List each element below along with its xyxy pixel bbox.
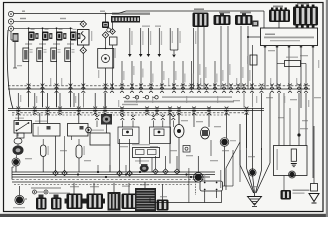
connector pair bus1-15 [190, 84, 194, 86]
label ECU text [265, 34, 275, 36]
pin tick 1 [264, 46, 266, 48]
camshaft sensor [101, 114, 112, 125]
wire ECU pin 5 [312, 46, 314, 179]
label Kdrop 2 [205, 67, 206, 78]
connector pair bus2-13 [192, 107, 196, 109]
wire interbus 8 [252, 93, 254, 108]
ECU lower box [274, 146, 308, 176]
wire injector 3 down [56, 62, 58, 108]
label ref 1 [131, 31, 132, 45]
ground bar fuse [291, 163, 297, 165]
ground main open [248, 197, 262, 206]
wire coil 3 drop [56, 28, 58, 32]
connector pair bus1-2 [41, 84, 45, 86]
wire bus2b stub 3 [132, 114, 134, 116]
wire igniter loop [204, 191, 206, 203]
label M-F [20, 18, 26, 19]
wire coil2 down [162, 184, 164, 199]
ECU terminal circles [126, 96, 129, 99]
fuse symbol [102, 55, 110, 63]
label bar col [115, 48, 116, 58]
label vspeck 7 [118, 100, 119, 107]
circuit opening relay [14, 121, 32, 134]
label diag text [31, 187, 61, 188]
connector pair bus1-9 [130, 84, 134, 86]
connector pair bus2-9 [145, 107, 149, 109]
wire bus2 drop 3 [47, 93, 49, 107]
label speck 21 [233, 100, 240, 101]
connector pair bus1-24 [260, 84, 264, 86]
label speck 27 [222, 150, 229, 151]
water temp sensor [16, 196, 23, 203]
label circles row [162, 96, 232, 98]
wire bar col down [112, 45, 114, 89]
box main relay 2 [133, 148, 160, 158]
injector solenoid [221, 139, 228, 146]
label vertical right [220, 170, 221, 188]
ground main hatch [250, 199, 260, 204]
label box mr2 [132, 144, 150, 145]
junction coil 1 [28, 27, 30, 29]
connector diamond bus3-d [62, 170, 67, 175]
connector pair bus2-16 [245, 107, 249, 109]
wire mid col 162 [161, 61, 163, 89]
label conn K5 [297, 3, 309, 5]
wire bus2b stub 5 [162, 114, 164, 116]
wire resistor jumper [277, 63, 285, 65]
wire left curve [7, 30, 13, 109]
connector ECU small [252, 21, 259, 27]
label R3 [58, 49, 61, 50]
wire relay to diamond [82, 45, 84, 47]
connector bar J1 [111, 16, 140, 23]
label speck 11 [140, 184, 149, 185]
connector pair bus1-23 [250, 84, 254, 86]
connector pair bus1-10 [139, 84, 143, 86]
connector pair bus2-15 [225, 107, 229, 109]
label wts [13, 207, 25, 208]
label ref pair [172, 31, 173, 43]
funnel arm 3 [252, 108, 254, 175]
funnel arm 4 [261, 148, 263, 170]
connector K2 [214, 15, 231, 25]
wire coil 4 drop [70, 28, 72, 32]
connector diamond bar [110, 29, 116, 35]
connector pair bus1-17 [205, 84, 209, 86]
connector B4 [122, 194, 138, 210]
connector pair bus1-28 [297, 84, 301, 86]
sensor circle funnel [250, 170, 256, 176]
junction bus3-3 [105, 176, 107, 178]
wire igniter 3 [56, 41, 58, 49]
wire fusebox down [105, 68, 107, 89]
wire mid drop 6 [104, 113, 106, 114]
bus line 3b [12, 174, 215, 176]
wire ref 4 [158, 28, 160, 56]
wire injector 2 down [42, 62, 44, 108]
wire ref 1 [129, 28, 131, 56]
connector pair bus2-5 [77, 107, 81, 109]
connector K1 [193, 13, 209, 28]
wire col 290 seg [289, 108, 291, 146]
label speck 18 [181, 120, 188, 121]
label T-5 [17, 65, 22, 66]
bus3 left bend [11, 167, 13, 180]
label vspeck 8 [136, 96, 137, 103]
wire mid drop 2 [39, 113, 41, 124]
wire Kdrop 6 [247, 26, 249, 89]
label speck 30 [300, 128, 308, 129]
dashed box VSV1 [118, 127, 139, 144]
pin tick 3 [288, 46, 290, 48]
wire bus3 drop 2 [109, 165, 111, 172]
label R2 [44, 49, 47, 50]
wire injector 1 down [28, 62, 30, 108]
label conn K1 [194, 8, 204, 10]
wire bus2b stub 1 [96, 114, 98, 116]
connector pair bus2-11 [168, 107, 172, 109]
junction bus3-4 [125, 173, 127, 175]
wire igniter 4 [70, 41, 72, 49]
wire bus2 drop 7 [104, 93, 106, 107]
EFI main relay [78, 30, 90, 46]
component small mid [183, 146, 190, 153]
arrow ref 2 [139, 54, 143, 57]
label Kdrop 3 [222, 70, 223, 81]
pin tick 4 [300, 46, 302, 48]
wire mid drop 4 [78, 113, 80, 124]
connector pair bus2-4 [58, 107, 62, 109]
connector pair bus1-1 [27, 84, 31, 86]
box throttle sensor [68, 124, 89, 137]
label resistor [286, 57, 298, 58]
label vspeck 1 [20, 95, 21, 102]
connector pair bus2b-6 [171, 115, 175, 117]
wire igniter stub [195, 181, 197, 195]
wire right edge2 [264, 13, 322, 15]
connector pair bus1-25 [270, 84, 274, 86]
wire mid drop 8 [178, 113, 180, 125]
connector K5 [293, 7, 318, 26]
wire ign drop [105, 14, 107, 22]
connector K3 [235, 15, 253, 25]
junction bus3-1 [77, 173, 79, 175]
wire long mid 2 [178, 113, 180, 125]
resistor R-EGR [285, 61, 301, 67]
label coil top 4 [73, 29, 77, 30]
wire interbus 3 [56, 93, 58, 108]
label conn K2 [219, 12, 230, 14]
wire bus2b stub 4 [153, 114, 155, 116]
knock sensor 1 [174, 125, 184, 138]
ignition coil T1 [28, 32, 34, 41]
connector pair bus2-2 [33, 107, 37, 109]
wire ECU pin 1 [264, 46, 266, 90]
wire bus2 drop 2 [34, 93, 36, 107]
connector pair bus2b-2 [121, 115, 125, 117]
ignition coil assy [135, 188, 156, 211]
wire long right 4 [305, 93, 307, 146]
fuel pump [13, 145, 24, 155]
connector pair bus2b-4 [152, 115, 156, 117]
bus line 1 [8, 88, 310, 90]
bus line 1b [8, 85, 310, 87]
connector diamond D1 [80, 21, 86, 27]
wire col 74 seg [73, 93, 75, 107]
bus line 3a [12, 171, 215, 173]
label vspeck 17 [284, 96, 285, 103]
junction coil 2 [42, 27, 44, 29]
label mid col 132 [133, 66, 134, 75]
label speck 25 [186, 155, 193, 156]
connector pair bus1-22 [242, 84, 246, 86]
label vspeck 5 [75, 96, 76, 103]
connector pair bus1-7 [110, 84, 114, 86]
dashed box VSV2 [150, 127, 171, 144]
connector pair bus1-6 [104, 84, 108, 86]
label coil top 1 [31, 29, 35, 30]
bus line 3c [12, 176, 210, 178]
label speck 23 [150, 146, 158, 147]
wire dlc down [109, 145, 111, 172]
wire Kdrop 5 [240, 26, 242, 89]
node IG terminal [8, 19, 13, 24]
wire bus2 drop 1 [17, 93, 19, 107]
wire igniter 1 [28, 41, 30, 49]
wire interbus 7 [243, 93, 245, 108]
box dlc [90, 133, 110, 145]
label mid col 141 [142, 69, 143, 78]
wire ref 2 [140, 28, 142, 56]
wire Kdrop 2 [203, 26, 205, 89]
wire Kdrop 4 [227, 26, 229, 89]
connector pair bus1-14 [181, 84, 185, 86]
wire right loop [223, 185, 234, 187]
pump sensor dot [13, 159, 19, 165]
ignition coil T2 [42, 32, 49, 41]
wire noise filter down [14, 42, 16, 68]
label Kdrop 5 [242, 67, 243, 78]
wire dist up [197, 156, 199, 173]
wire capsule1 [42, 157, 44, 173]
label conn K4 [273, 6, 283, 8]
connector diamond D3 [102, 32, 108, 38]
connector pair bus2-14 [207, 107, 211, 109]
bus line 3d [12, 179, 205, 181]
label speck 5 [314, 97, 321, 98]
label R1 [30, 49, 33, 50]
wire capsule2 [78, 158, 80, 172]
junction circle [107, 28, 111, 32]
connector diamond bus3-3 [174, 169, 179, 174]
wire coil 1 drop [28, 28, 30, 32]
label coil top 2 [45, 29, 49, 30]
connector pair bus2-3 [46, 107, 50, 109]
label check conn [247, 56, 248, 64]
wire long right 1 [261, 93, 263, 150]
label Kdrop 6 [249, 70, 250, 81]
wire bus2 drop 4 [59, 93, 61, 107]
label vspeck 20 [318, 60, 319, 68]
label a [22, 11, 25, 12]
wire ECU left stub [248, 36, 261, 38]
funnel arm 1 [239, 124, 241, 165]
wire bus3 drop 3 [125, 165, 127, 172]
junction bus3-2 [97, 171, 99, 173]
label box2 [35, 121, 47, 122]
connector diamond D2 [80, 47, 86, 53]
junction coil 3 [56, 27, 58, 29]
label ref 2 [142, 31, 143, 45]
bus line 2d [12, 114, 230, 116]
wire second feed [14, 20, 84, 22]
connector pair bus2-8 [120, 107, 124, 109]
wire interbus 4 [70, 93, 72, 108]
wire ref 3 [147, 28, 149, 56]
label vspeck 3 [50, 78, 51, 86]
label ref 3 [150, 31, 151, 45]
connector blob ign [102, 22, 109, 29]
diag connector right [281, 190, 292, 200]
wire long mid 1 [169, 113, 171, 164]
wire bus2b stub 2 [121, 114, 123, 116]
connector pair bus2-6 [93, 107, 97, 109]
connector B1 [67, 194, 83, 210]
label speck 19 [196, 121, 203, 122]
funnel arm 2 [246, 150, 248, 168]
label speck 15 [84, 160, 91, 161]
wire injector 4 down [70, 62, 72, 108]
wire mid drop 11 [226, 113, 228, 138]
label speck 13 [25, 158, 32, 159]
arrow ref 1 [128, 54, 132, 57]
connector small S2 [51, 198, 62, 210]
label speck 2 [278, 117, 284, 118]
label speck 14 [60, 150, 67, 151]
wire ECU pin 4 [300, 46, 302, 109]
injector resistor R4 [65, 48, 71, 62]
wire mid drop 1 [17, 113, 19, 121]
label speck 17 [155, 26, 161, 27]
label vspeck 19 [308, 100, 309, 107]
label speck 1 [266, 97, 273, 98]
label mid col 183 [184, 74, 185, 83]
connector pair bus2-10 [155, 107, 159, 109]
wire to fusebox [105, 38, 107, 48]
wire mid col 132 [131, 61, 133, 89]
wire relay down [82, 54, 84, 90]
wire mid col 122 [121, 61, 123, 89]
label vspeck 14 [236, 78, 237, 86]
label speck 4 [302, 120, 308, 121]
label vspeck 4 [61, 78, 62, 86]
label mid col 215 [216, 74, 217, 83]
wire K5 to ECU [302, 26, 304, 28]
label ECU bar [112, 13, 150, 15]
label rel1 [15, 118, 24, 119]
wire ref pair [169, 28, 171, 50]
junction bus3-5 [139, 171, 141, 173]
fuse bottom right [311, 184, 318, 192]
wire ECU pin 2 [276, 46, 278, 90]
junction coil 4 [70, 27, 72, 29]
label speck 3 [290, 99, 297, 100]
label vspeck 16 [270, 78, 271, 86]
wire mid drop 5 [94, 113, 96, 114]
connector pair bus2-1 [16, 107, 20, 109]
wire bus3 drop 1 [97, 165, 99, 172]
junction bus3-6 [185, 173, 187, 175]
label ECU mid text [124, 101, 234, 103]
speed sensor [86, 127, 92, 133]
wire top feed [14, 13, 118, 15]
node B+ terminal [8, 11, 13, 16]
wire left drop [10, 31, 12, 40]
wire interbus 5 [82, 93, 84, 108]
wire mid col 183 [182, 61, 184, 89]
wire mid drop 9 [193, 113, 195, 127]
label speck 28 [300, 55, 308, 56]
wire interbus 1 [28, 93, 30, 108]
wire Kdrop 3 [220, 26, 222, 89]
label Kdrop 4 [229, 64, 230, 75]
label speck 7 [250, 186, 257, 187]
ignition coil 2 [140, 165, 149, 172]
bus line 2c [12, 112, 250, 114]
wire box3 down [64, 136, 66, 171]
connector pair bus1-5 [81, 84, 85, 86]
label mid col 191.5 [193, 74, 194, 83]
label conn K3 [240, 12, 251, 14]
label vspeck 11 [186, 96, 187, 103]
connector pair bus1-27 [288, 84, 292, 86]
label speck 9 [90, 186, 99, 187]
label mid col 174 [175, 71, 176, 80]
label speck 20 [214, 126, 221, 127]
label mid col 162 [163, 71, 164, 80]
connector pair bus1-26 [277, 84, 281, 86]
wire box2 down [55, 136, 57, 171]
wire long mid 3 [224, 147, 226, 187]
connector pair bus1-12 [160, 84, 164, 86]
wire col 284 seg [283, 93, 285, 146]
connector pair bus1-3 [55, 84, 59, 86]
diag terminal circles [33, 190, 37, 194]
knock sensor 2 [201, 127, 210, 139]
capsule sensor 2 [76, 145, 82, 158]
connector pair bus1-4 [69, 84, 73, 86]
arrow ref pair [172, 55, 176, 58]
label speck 6 [248, 156, 255, 157]
wire long right 2 [278, 93, 280, 146]
injector resistor R1 [23, 48, 29, 62]
label vspeck 13 [217, 96, 218, 103]
label vspeck 12 [200, 78, 201, 86]
wire mid col 141 [140, 61, 142, 89]
ground main stem [254, 193, 256, 197]
label speck 16 [142, 26, 150, 27]
coil connector small [157, 200, 169, 211]
connector pair bus1-16 [197, 84, 201, 86]
pin tick 5 [312, 46, 314, 48]
label R4 [72, 49, 75, 50]
wire long right 3 [298, 93, 300, 146]
wire mid drop 10 [208, 113, 210, 127]
wire K4 to ECU [278, 22, 280, 28]
connector pair bus1-19 [222, 84, 226, 86]
bus line 2b [8, 110, 264, 112]
wire box out bottom [283, 176, 285, 191]
